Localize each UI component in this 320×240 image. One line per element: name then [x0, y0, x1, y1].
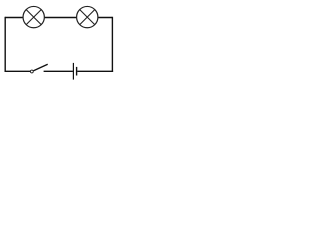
wire bottom battery to right corner [77, 70, 113, 72]
lamp L2 [77, 6, 98, 27]
wire bottom left to switch [5, 70, 31, 72]
switch S1 [30, 64, 47, 73]
wire left side [4, 17, 6, 72]
lamp L1 [23, 6, 44, 27]
battery B1 [73, 63, 76, 80]
wire bottom switch to battery [44, 70, 73, 72]
wire right side [111, 17, 113, 72]
wire top side [5, 17, 112, 19]
